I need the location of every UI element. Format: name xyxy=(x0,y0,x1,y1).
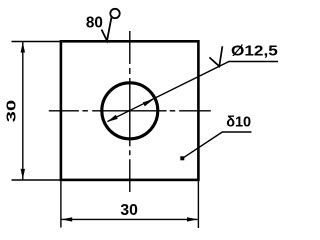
svg-text:Ø12,5: Ø12,5 xyxy=(231,42,278,59)
diameter leader line xyxy=(108,62,279,122)
roughness symbol ring xyxy=(110,9,119,18)
label 30 left xyxy=(4,100,19,122)
roughness symbol on top edge xyxy=(102,18,112,41)
left dimension extension line top xyxy=(12,41,61,43)
left dimension line xyxy=(22,42,24,179)
thickness leader line xyxy=(183,132,252,158)
svg-text:80: 80 xyxy=(86,14,103,31)
bottom dimension line xyxy=(62,218,198,220)
left dimension arrow down xyxy=(21,169,25,180)
label 30 bottom xyxy=(120,202,138,219)
vertical centerline xyxy=(129,31,131,192)
left dimension arrow up xyxy=(21,42,25,53)
diameter arrow lower-left xyxy=(107,115,118,122)
left dimension extension line bottom xyxy=(12,179,61,181)
thickness leader dot xyxy=(180,156,184,160)
label delta 10 xyxy=(226,115,251,131)
svg-text:30: 30 xyxy=(120,202,138,219)
square plate outline xyxy=(61,41,199,180)
hole circle xyxy=(102,83,158,139)
label 80 xyxy=(86,14,103,31)
diameter arrow upper-right xyxy=(143,99,154,106)
bottom dimension extension line left xyxy=(60,181,62,228)
label diameter 12,5 xyxy=(231,42,278,59)
svg-text:δ10: δ10 xyxy=(226,115,251,131)
bottom dimension extension line right xyxy=(197,181,199,228)
svg-text:30: 30 xyxy=(4,100,19,122)
bottom dimension arrow left xyxy=(62,217,73,221)
roughness check on leader xyxy=(209,46,222,66)
bottom dimension arrow right xyxy=(187,217,198,221)
horizontal centerline xyxy=(49,110,211,112)
